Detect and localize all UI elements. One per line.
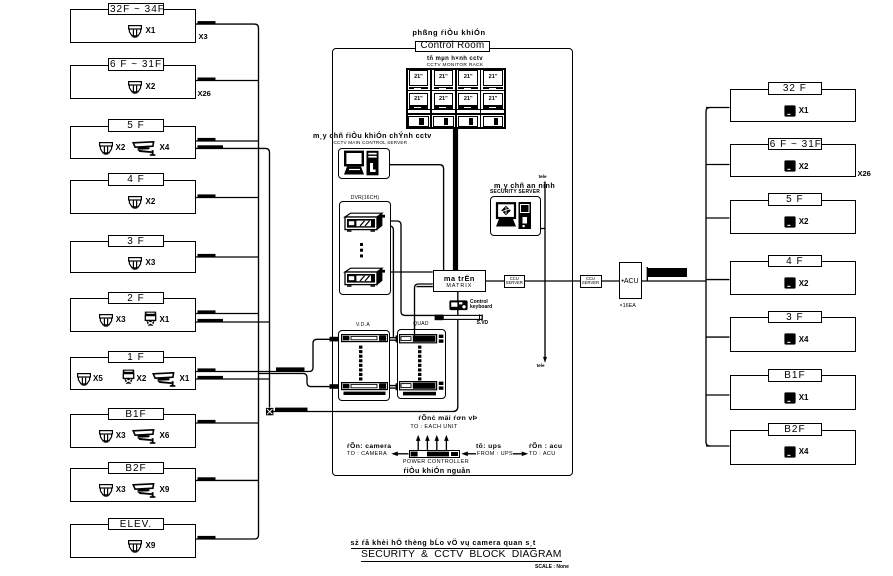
wire: 5F boxcam line to trunk2 corner [196,148,270,407]
security server box [490,196,541,236]
arrows: power controller to each unit [416,435,449,451]
label box 5F right [768,193,822,206]
label box ELEV [108,518,164,531]
S.VD distribution unit [434,314,484,321]
cable bar: 4F cable bar [198,194,216,197]
text: DVR(16CH) [351,195,379,201]
wire: 2F dome line to trunk1 [196,313,259,315]
count label X3 in 3F [146,258,156,267]
text: TO : CAMERA [347,451,387,457]
wire: 2F ptz line to trunk2 [196,321,270,323]
ACU unit icon in B1F [784,392,796,404]
wire: QUAD second output to matrix left [417,286,433,288]
camera icon dome in B1F [99,430,113,443]
wire: security server to tele line [541,228,546,230]
DVR unit top [343,212,385,232]
cable bar: 5F boxcam cable bar [198,145,224,148]
VDA box [338,330,390,401]
QUAD unit top [399,334,444,349]
label box 3F right [768,311,822,324]
arrow: UPS to ACU (right) [513,452,528,457]
text: x16EA [620,303,636,309]
power controller unit [409,450,460,458]
floor box 3F (left) [70,241,196,273]
label box 32F right [768,82,822,95]
DVR unit bottom [343,267,385,287]
monitor 21inch row1 col4 [483,70,503,86]
node: Control Room label box [415,41,489,53]
floor box 6F~31F (right, ACU column) [730,144,856,177]
cable bar: 2F dome cable bar [198,310,216,313]
label box B1F right [768,369,822,382]
label box 2F [108,292,164,305]
label box B2F [108,462,164,475]
count label X1 in 32F right [799,106,809,115]
rack VCR unit col2 [433,116,454,127]
cable bar: 3F cable bar [198,254,216,257]
matrix box [433,270,486,292]
count label X4 in 3F right [799,335,809,344]
camera icon ptz in 2F [144,311,157,328]
icon: control keyboard [449,300,468,311]
wire: right 4F stub [706,279,730,281]
count label X2 in 6F~31F [146,82,156,91]
floor box 6F~31F (left) [70,65,196,99]
wire: DVR top unit to S.VD [383,221,435,315]
label box B2F right [768,423,822,436]
cable count label X3 at 32F~34F output [199,32,208,41]
camera icon boxcam in B1F [132,429,158,444]
text: POWER CONTROLLER [403,459,469,465]
floor box B2F (left) [70,468,196,502]
camera icon boxcam in 5F [132,141,158,156]
floor box B1F (left) [70,414,196,448]
count label X1 in 32F~34F [146,26,156,35]
camera icon boxcam in 1F [152,372,178,387]
count label X2 in 4F right [799,279,809,288]
CCTV monitor rack frame [406,68,506,130]
camera icon dome in 4F [128,196,142,209]
wire: DVR bottom unit to matrix left [383,271,433,273]
wire: matrix to CCU servers to ACU to right trunk [486,280,706,282]
floor box 32F~34F (left) [70,9,196,43]
CCTV main control server box U1 [338,148,390,179]
count label X2 in 4F [146,197,156,206]
camera icon dome in 5F [99,142,113,155]
wire: right trunk vertical [706,108,710,447]
VDA unit top [341,334,388,347]
ACU unit icon in 32F [784,105,796,117]
text: tele (top) [539,174,547,179]
wire: VDA-QUAD link top pair [386,338,400,341]
DVR box [339,201,391,295]
camera icon dome in 32F~34F [128,25,142,38]
count label X2 in 6F~31F right [799,162,809,171]
floor box 5F (right, ACU column) [730,200,856,234]
count label X3 in 2F [116,315,126,324]
text: FROM : UPS [477,451,513,457]
ACU unit icon in 6F~31F [784,160,796,172]
text: may chu dieu khien chinh cctv [313,131,432,140]
floor box ELEV (left) [70,524,196,558]
camera icon dome in B2F [99,484,113,497]
connector blocks VDA left inputs [330,337,340,389]
text: TO : EACH UNIT [410,424,457,430]
count label X3 in B1F [116,431,126,440]
camera icon ptz in 1F [122,369,135,386]
text: SECURITY SERVER [490,189,540,195]
count label X2 in 5F right [799,217,809,226]
text: tele (bottom) [537,363,545,368]
text: tu ups [476,443,501,450]
count label X6 in B1F [160,431,170,440]
title: SECURITY & CCTV BLOCK DIAGRAM [361,549,562,562]
QUAD unit bottom [399,381,444,396]
icon: control server computer [344,150,386,177]
floor box 4F (left) [70,180,196,215]
count label X2 in 1F [137,374,147,383]
monitor 21inch row2 col1 [409,93,429,106]
wire: right 5F stub [706,217,730,219]
floor box B2F (right, ACU column) [730,430,856,465]
cable bar: ELEV cable bar [198,536,216,539]
text: CCTV MAIN CONTROL SERVER [334,140,408,145]
wire: right 3F stub [706,336,730,338]
text: CCTV MONITOR RACK [427,63,484,68]
cable count label X26 right column [858,169,871,178]
cable bar: 5F dome cable bar [198,138,216,141]
wire: QUAD outputs up to matrix left [415,284,433,334]
text: TO : ACU [529,451,556,457]
text: tu man hinh cctv [427,56,483,62]
monitor 21inch row2 col3 [458,93,478,106]
title: vietnamese underlined [351,538,536,549]
ACU unit icon in 3F [784,333,796,345]
monitor 21inch row1 col1 [409,70,429,86]
label box 32F~34F [108,3,164,16]
count label X1 in 2F [160,315,170,324]
wire: right 32F stub [706,107,730,109]
text: QUAD [413,321,429,327]
camera icon dome in 6F~31F [128,81,142,94]
wire: ACU output cable bar with tick [647,267,687,281]
rack VCR unit col4 [483,116,504,127]
camera icon dome in ELEV [128,540,142,553]
floor box 32F (right, ACU column) [730,89,856,123]
VDA unit bottom [341,382,388,395]
monitor 21inch row2 col4 [483,93,503,106]
count label X4 in 5F [160,143,170,152]
floor box B1F (right, ACU column) [730,375,856,410]
wire: CCTV main control server to matrix [390,165,444,270]
label box 4F [108,173,164,186]
label box 1F [108,351,164,364]
ACU unit icon in B2F [784,446,796,458]
dots: DVR ellipsis [359,242,365,260]
arrow: from UPS into power controller [461,452,476,457]
rack VCR unit col1 [408,116,429,127]
icon: security server computer [495,200,536,232]
label box B1F [108,408,164,421]
label box 5F [108,119,164,132]
cable bar: B1F cable bar [198,420,216,423]
wire: 1F ptz line to trunk2 [196,378,270,380]
dots: VDA ellipsis [358,345,364,383]
monitor 21inch row1 col2 [434,70,454,86]
wire: right 6F~31F stub [706,164,730,166]
rack VCR unit col3 [458,116,479,127]
wire: trunk1 output to VDA bottom unit [259,374,332,387]
wire: security server tele line down with arrow [544,182,546,358]
wire: DVR top unit to VDA/QUAD link [383,226,394,338]
count label X5 in 1F [93,374,103,383]
wire: B1F to trunk1 [196,422,259,424]
wire: 1F dome line through trunk to VDA top unit [196,339,331,371]
cable bar: B2F cable bar [198,477,216,480]
text: den camera [347,443,391,450]
wire: right B1F stub [706,394,730,396]
text: may chu an ninh [494,181,555,190]
CCU server box 1 [504,275,525,287]
label box 6F~31F right [768,138,822,151]
count label X1 in B1F right [799,393,809,402]
camera icon dome in 2F [99,314,113,327]
wire: 4F to trunk1 [196,197,259,199]
wire: matrix feed into QUAD top unit (overlay) [413,328,416,336]
label box 6F~31F [108,58,164,71]
wire: VDA-QUAD link bottom pair [386,386,400,389]
text: den moi don vi [418,415,477,422]
wire: 6F~31F to trunk1 [196,80,259,82]
floor box 2F (left) [70,298,196,332]
text: V.D.A [356,322,370,328]
cable bar: control feed cable bar [275,408,308,412]
arrow: power controller to camera (left) [391,452,408,457]
text: dieu khien nguon [403,466,470,475]
ACU box [619,262,642,300]
junction: camera control net [266,408,273,415]
wire: 5F dome line to trunk1 [196,140,259,142]
QUAD box [397,329,446,399]
control room outer boundary box [332,48,574,477]
floor box 3F (right, ACU column) [730,317,856,352]
wire: matrix to S.VD to camera-control junction [273,292,458,412]
count label X4 in B2F right [799,447,809,456]
label box 4F right [768,255,822,268]
wire: right B2F stub [706,445,730,447]
monitor 21inch row1 col3 [458,70,478,86]
cable bar: VDA feed cable bar [276,367,305,371]
monitor 21inch row2 col2 [434,93,454,106]
cable bar: 32F~34F trunk cable bar [198,21,216,24]
camera icon dome in 3F [128,257,142,270]
cable bar: 1F dome cable bar [198,368,216,371]
camera icon boxcam in B2F [132,483,158,498]
camera icon dome in 1F [77,373,91,386]
floor box 5F (left) [70,126,196,160]
wire: 3F to trunk1 [196,256,259,258]
floor box 4F (right, ACU column) [730,261,856,295]
rack shelf lines [406,90,506,92]
text: den acu [529,443,562,450]
floor box 1F (left) [70,357,196,390]
ACU unit icon in 5F [784,216,796,228]
count label X1 in 1F [180,374,190,383]
text: S.VD [477,320,489,326]
text: phong dieu khien [412,28,485,37]
label box 3F [108,235,164,248]
count label X3 in B2F [116,485,126,494]
wire: B2F to trunk1 [196,479,259,481]
ACU unit icon in 4F [784,277,796,289]
count label X9 in B2F [160,485,170,494]
CCU server box 2 [580,275,602,287]
rack column separators [430,68,432,130]
wire: left trunk 1 (32F~34F down to ELEV feed) [196,24,259,539]
count label X2 in 5F [116,143,126,152]
cable count label X26 at 6F~31F output [198,89,211,98]
cable bar: 1F ptz cable bar [198,376,224,379]
cable bar: 6F~31F trunk cable bar [198,78,216,81]
dots: QUAD ellipsis [417,345,423,383]
wire: monitor rack to matrix thick video bus [453,129,458,271]
text: SCALE : None [535,564,569,570]
connector blocks VDA/QUAD [385,335,400,390]
text: Control keyboard [470,300,492,311]
count label X9 in ELEV [146,541,156,550]
cable bar: 2F ptz cable bar [198,319,224,322]
